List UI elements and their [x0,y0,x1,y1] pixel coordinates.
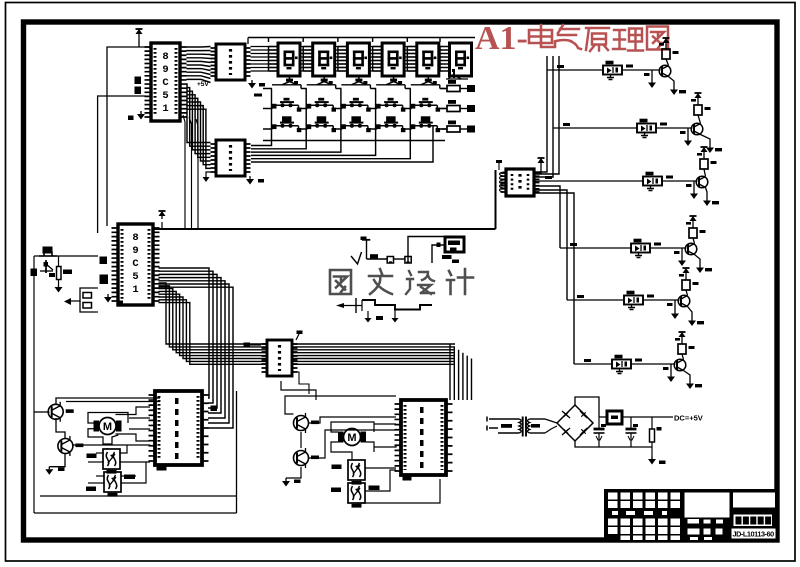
wire (DC output rail) [599,416,607,418]
transistor Q1 (display driver) [272,76,301,89]
label (U1 ground) [128,116,134,121]
ground (emitter stage 2) [706,145,714,153]
title block frame (black panel) [604,489,777,541]
capacitor C6 [598,417,600,429]
wire (bottom long rail) [34,512,237,514]
wire (input of stage 1) [547,69,603,71]
seven-segment display DS5 [417,43,439,76]
ground (emitter stage 3) [703,198,711,206]
seven-segment display DS4 [382,43,404,76]
wire (VCC to U5) [161,222,163,229]
VCC (stage 4) [690,216,697,224]
wire (VCC hook U4) [534,169,541,173]
wire (U4 to stage 2) [535,56,554,177]
wire (input of stage 6) [574,363,612,365]
svg-text:C: C [132,258,139,270]
optocoupler U14 [631,239,650,253]
resistor R6c (collector) [682,354,684,360]
IC U4 ULN2003 [501,169,540,196]
display DS1 pins [269,46,278,71]
label R6c [689,346,695,349]
text (U7) [175,398,179,459]
ground (U11) [607,75,614,80]
transistor Q3 (display driver) [341,76,370,89]
optocoupler U11 [603,61,622,75]
transistor Q12 [691,123,703,135]
seven-segment display DS1 [278,43,300,76]
svg-text:DC=+5V: DC=+5V [674,414,703,423]
label (U2 ground) [259,83,265,87]
motor M1 [94,418,122,435]
ground (base stage 1) [648,80,656,88]
IC U5 89C51 [112,224,160,305]
pushbutton S1 [272,98,308,112]
wire (input of stage 3) [535,180,643,182]
svg-text:9: 9 [132,245,138,257]
wire (motor A loop) [88,413,128,424]
transistor Q13 [696,176,708,188]
wire (keypad row rail 4) [263,140,445,142]
ground (base stage 3) [690,191,698,199]
label (U7 bottom-left) [157,465,167,471]
label (emitter stage 6) [695,384,702,387]
regulator U9 7805 [607,411,622,424]
transistor Q7 (reset) [40,260,55,277]
resistor R3c (collector) [704,169,706,177]
optocoupler U21 [103,449,120,474]
wire (keypad row rail 3 left stub) [263,128,273,130]
connector J1 [445,237,464,252]
wire (U4 to stage 4) [535,186,561,248]
wire (emitter, stage 6) [684,371,691,382]
pushbutton S2 [307,98,343,112]
wire (U4 third riser) [535,56,560,174]
wire (U5 to U4 horizontal) [153,228,496,230]
transistor Q6 (display driver DS6) [446,69,468,79]
title block text 电气原理图 [736,517,772,525]
pushbutton S5 [411,98,447,112]
svg-text:8: 8 [132,232,138,244]
watermark glyph 图 (gray) [330,270,351,294]
label (U5 ground) [117,301,124,306]
wire (supply ground) [651,447,653,456]
small circuit (pullup near J1) [351,237,445,265]
label R1c [673,51,679,54]
wire (U4 to stage 6) [535,193,575,364]
wire (keypad column verticals and turn to U3) [251,89,433,163]
wire (opto to base, stage 3) [662,180,698,182]
ground (emitter stage 1) [670,87,678,95]
wire bus (U1 to U2) [187,47,211,83]
VCC (stage 2) [695,93,702,101]
motor M2 [338,429,366,446]
transistor Q11 [294,448,320,468]
label (emitter stage 3) [712,201,719,204]
svg-text:1: 1 [162,103,168,115]
wire (base divider, stage 2) [687,128,689,138]
optocoupler U16 [612,355,631,369]
ground (emitter stage 6) [686,381,694,389]
wire (rail left drop) [247,38,249,45]
resistor R31 and capacitor (rail terminator) [441,80,475,92]
transistor Q11 [659,65,671,77]
wire (U1 to U5 verticals) [183,115,198,228]
svg-text:JD-L10113-60: JD-L10113-60 [733,530,775,539]
wire (rail to DS3) [337,38,339,43]
label (U22 left) [86,487,96,492]
wire (rail to DS2) [302,38,304,43]
label (stage 3 input) [545,176,552,179]
resistor R6 (bleeder) [651,417,653,429]
label R5 [63,270,72,275]
title glyph 电 [529,25,555,47]
pushbutton S6 [272,116,308,132]
svg-text:M: M [103,421,112,433]
optocoupler U15 [624,291,643,305]
VCC (stage 5) [683,268,690,276]
ground (U14) [635,253,642,258]
wire (emitter, stage 2) [701,135,711,146]
wire bus (U5 to driver IC A) [159,268,234,428]
wire (input of stage 5) [567,299,624,301]
wire bus (U6 bus turning down to IC B) [450,344,472,378]
ground (U15) [628,305,635,310]
watermark glyph 文 (gray) [369,269,392,294]
display DS3 pins [338,46,347,71]
title glyph 理 [613,29,643,51]
wire (emitter, stage 4) [695,255,701,266]
wire (rail to DS6) [439,38,441,43]
title block white cells (right section) [732,493,776,539]
title glyph 原 [586,28,609,51]
wire (keypad row rail 1 segments) [263,88,446,90]
label R5c [693,282,699,285]
optocoupler U22 [104,472,121,497]
VCC (stage 6) [679,332,686,340]
VCC (U5) [159,211,166,219]
wire (opto to base, stage 2) [656,127,693,129]
wire bus (U5 to U6 horizontal bus) [159,283,456,364]
label (U22 right) [124,475,135,480]
wire (base divider, stage 6) [670,364,672,374]
optocoupler U24 [348,483,365,508]
ground (R5) [55,285,63,293]
wire (VCC to U1) [138,36,140,47]
wire (opto to base, stage 4) [650,247,687,249]
svg-text:+5V: +5V [197,81,209,88]
ground (U16) [616,369,623,374]
ground (base stage 4) [678,258,686,266]
transistor Q9 [58,436,84,456]
ground (U13) [647,186,654,191]
bridge rectifier D1-D4 [557,405,593,441]
wire (base divider, stage 4) [681,248,683,258]
wire (reset node) [34,255,98,257]
transistor Q5 (display driver) [411,76,440,89]
ground (cluster B) [282,478,290,487]
U4 inner pin columns [512,174,528,191]
display DS4 pins [373,46,382,71]
pushbutton S10 [411,116,447,132]
title block white cells (left section) [608,493,680,541]
wire (opto to base, stage 1) [622,69,661,71]
VCC (stage 3) [701,147,708,155]
optocoupler U13 [643,172,662,186]
capacitor C4 (U5 left) [100,275,109,285]
display DS5 pins [407,46,416,71]
transformer T1 [498,417,545,437]
seven-segment display DS6 [450,43,472,76]
wire (U4 to stage 5) [535,190,568,300]
svg-text:5: 5 [162,90,168,102]
ground (U1) [137,111,145,120]
wire (base divider, stage 3) [693,181,695,191]
optocoupler U23 [348,460,365,485]
IC U2 74LS164 [211,44,251,80]
title glyph 气 [556,25,581,49]
display DS2 pins [303,46,312,71]
pushbutton S3 [341,98,377,112]
capacitor C7 [630,417,632,429]
label (U8 bottom-left) [403,475,412,481]
wire (base divider, stage 1) [651,70,653,80]
wire (transformer to bridge) [545,419,557,423]
label (stage 2 input) [563,123,570,126]
AC plug terminals [487,417,498,431]
label (emitter stage 2) [715,148,722,151]
svg-text:9: 9 [162,64,168,76]
wire (rail to DS5) [406,38,408,43]
label (U6 top pin) [296,334,299,340]
label (emitter stage 5) [697,321,704,324]
wire (keypad row rail 2 left stub) [263,108,273,110]
svg-text:C: C [162,77,169,89]
title block white cells (middle section) [685,493,730,541]
label R2c [705,107,711,110]
capacitor C3 (U5 left) [100,257,108,265]
watermark glyph 设 (gray) [406,271,434,294]
IC U8 L298 (driver B) [395,400,453,475]
svg-text:8: 8 [162,51,168,63]
seven-segment display DS3 [347,43,369,76]
label (stage 1 input) [557,65,564,68]
svg-text:5: 5 [132,271,138,283]
wire (emitter, stage 1) [669,77,675,88]
label R4c [700,230,706,233]
transistor Q15 [678,295,690,307]
label (U4 top-left) [496,160,502,163]
label (rail1 left) [254,94,262,97]
wire (U4 to stage 1) [535,56,548,172]
ground (U5) [104,294,112,303]
IC U6 74LS07 [262,340,298,376]
svg-text:A1-: A1- [475,20,528,57]
ground (cluster A) [45,467,53,475]
ground (U12) [641,133,648,138]
resistor R2c (collector) [698,115,701,124]
label (U21 left) [87,454,97,459]
wire (emitter, stage 5) [688,307,693,319]
wire (display VCC rail) [248,37,475,39]
title glyph 图 [647,27,668,50]
label (U7 right) [211,406,218,412]
pushbutton S8 [341,116,377,132]
wire (motor B loop) [331,422,374,432]
wire (base divider, stage 5) [674,300,676,311]
small oscillator circuit (below watermark) [336,298,432,323]
text (U8) [420,407,424,468]
transistor Q10 [294,413,320,433]
pushbutton S7 [307,116,343,132]
wire (input of stage 4) [560,247,631,249]
label (U24 right) [369,486,380,491]
wires (cluster A interconnect) [34,391,237,496]
svg-text:M: M [347,432,356,444]
label (U24 left) [331,488,341,493]
label (stage 4 input) [570,243,577,246]
IC U1 89C51 [145,43,187,121]
wire (rail to DS4) [372,38,374,43]
wire (emitter, stage 3) [706,188,708,199]
wire (left vertical bus from U1) [107,47,151,226]
ground (base stage 2) [684,138,692,146]
wire (opto to base, stage 6) [631,363,676,365]
VCC (U4) [538,158,545,169]
transistor Q8 [48,402,73,422]
ground (power supply) [648,456,656,465]
resistor R33 and capacitor (rail terminator) [441,121,475,133]
VCC (U1) [136,29,143,36]
resistor R32 and capacitor (rail terminator) [441,100,475,112]
label R3c [711,161,717,164]
seven-segment display DS2 [313,43,335,76]
label (U23 left) [332,465,342,470]
resistor R5c (collector) [686,290,688,296]
wire bus (segment lines through displays) [251,47,443,72]
transistor Q14 [685,243,697,255]
ground (emitter stage 4) [696,265,704,273]
wire bus (U1 to U3) [187,84,211,168]
label (emitter stage 1) [679,90,686,93]
wire bus (U8 top right up) [450,378,472,400]
ground (base stage 5) [671,311,679,319]
optocoupler U12 [637,119,656,133]
ground (emitter stage 5) [688,318,696,326]
watermark glyph 计 (gray) [447,269,473,294]
ground (U3 right) [246,176,264,185]
label (cluster B ground) [294,480,301,484]
wire (left margin vertical) [33,256,35,513]
ground (U2) [248,80,256,89]
transistor Q16 [674,359,686,371]
resistor R4c (collector) [693,238,695,244]
wire (U6 staircase down) [281,381,316,400]
display DS6 pins [440,46,449,71]
transistor Q2 (display driver) [307,76,336,89]
ground (base stage 6) [667,374,675,382]
label (stage 6 input) [584,359,591,362]
VCC (stage 1) [663,38,670,46]
resistor R5 (vertical) [57,267,62,280]
wire (bridge top to rail) [575,397,599,417]
ground (U3 left) [203,172,212,182]
label (stage 5 input) [577,295,584,298]
pushbutton S11 (reset) [39,247,57,257]
transistor Q4 (display driver) [376,76,405,89]
capacitor C5 [31,269,38,277]
pushbutton S4 [376,98,412,112]
capacitor C1 (U1 left) [135,77,142,85]
wire (second left vertical bus) [98,96,146,233]
wire (U4 left curls) [500,172,506,192]
svg-text:1: 1 [132,284,138,296]
IC U3 74LS164 [211,140,251,176]
IC U7 L298 (driver A) [149,391,209,465]
wire (bridge bottom rail) [575,441,652,447]
label (cluster A ground) [58,468,65,472]
label (emitter stage 4) [705,268,712,271]
label (supply ground) [659,461,666,465]
label (J1) [442,255,452,259]
wires (cluster B interconnect) [285,396,440,503]
wire (rail to DS1) [268,38,270,43]
wire (opto to base, stage 5) [643,299,680,301]
resistor R1c (collector) [666,59,669,66]
crystal Y1 circuit [64,288,98,312]
pushbutton S9 [376,116,412,132]
wire (input of stage 2) [553,127,637,129]
wire (U6 left pin stub) [250,344,261,346]
capacitor C2 (U1 left) [135,87,142,95]
